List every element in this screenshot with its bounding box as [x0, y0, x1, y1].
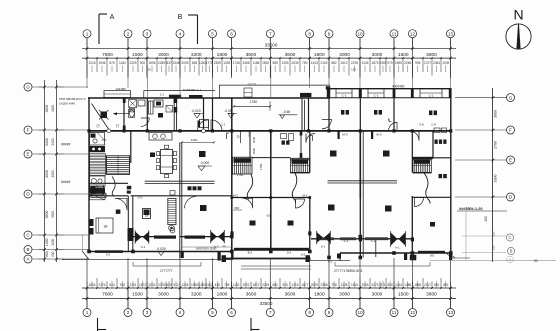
- outer wall left: [88, 97, 90, 251]
- svg-text:10: 10: [357, 310, 363, 315]
- wall x212 upper: [212, 98, 214, 131]
- grid bubble D right: [507, 193, 515, 201]
- svg-text:33500: 33500: [260, 301, 273, 306]
- door leaf big room 1: [338, 131, 340, 139]
- porch divider right: [375, 239, 377, 257]
- columns on bottom walls: [87, 235, 452, 259]
- svg-text:C-1: C-1: [429, 94, 434, 98]
- grid bubble A left: [24, 255, 32, 263]
- grid bubble 13 bottom: [447, 309, 455, 317]
- svg-text:M-2: M-2: [233, 193, 238, 197]
- wall x301 below cross: [300, 131, 303, 158]
- svg-text:400: 400: [484, 216, 488, 222]
- grid line stem 11 top: [393, 38, 395, 49]
- svg-text:1B: 1B: [145, 213, 149, 217]
- svg-text:3300: 3300: [494, 175, 498, 183]
- svg-text:1188: 1188: [253, 61, 260, 65]
- svg-text:A: A: [110, 14, 115, 21]
- living room label: [199, 151, 206, 157]
- svg-text:676: 676: [109, 61, 115, 65]
- svg-text:12: 12: [410, 31, 416, 36]
- grid line stem 10 top: [359, 38, 361, 49]
- svg-text:1800: 1800: [217, 52, 228, 58]
- svg-text:1: 1: [86, 310, 89, 315]
- svg-text:1707: 1707: [424, 61, 431, 65]
- svg-text:M-3: M-3: [376, 132, 381, 136]
- level marker 0.000: [198, 161, 212, 171]
- kitchen stove counter: [149, 133, 172, 141]
- svg-text:B: B: [26, 247, 29, 252]
- grid bubble G right: [507, 94, 515, 102]
- centre porch labels: [248, 250, 292, 254]
- grid line stem 9 top: [328, 38, 330, 49]
- svg-text:2400: 2400: [45, 138, 49, 146]
- stair wall x412: [411, 131, 413, 173]
- circle tag above window: [170, 228, 175, 233]
- grid line stem 3 top: [146, 38, 148, 49]
- grid bubble 5 bottom: [209, 309, 217, 317]
- dim 600 text: [233, 206, 242, 210]
- grid bubble A lower right: [507, 256, 514, 263]
- bath hatch box upper left: [129, 100, 137, 108]
- svg-text:C-3: C-3: [221, 123, 226, 127]
- grid bubble 5 top: [209, 30, 217, 38]
- outer wall step connector: [327, 89, 329, 98]
- svg-text:1500: 1500: [132, 291, 143, 297]
- bracket mark right: [310, 136, 313, 142]
- columns on cross wall: [87, 129, 452, 132]
- svg-text:4000: 4000: [51, 170, 55, 177]
- kitchen window column: [149, 101, 154, 114]
- svg-text:b-1: b-1: [321, 245, 326, 249]
- wall y197 bed5 top: [412, 196, 451, 198]
- svg-text:7800: 7800: [102, 291, 113, 297]
- grid line stem G left: [32, 86, 88, 88]
- svg-text:10: 10: [357, 31, 363, 36]
- wall x329 lower: [328, 237, 330, 258]
- svg-text:1216: 1216: [88, 61, 95, 65]
- right dimension ticks and numbers: [492, 96, 498, 198]
- bed5 window black sill: [418, 251, 445, 254]
- svg-text:3800: 3800: [426, 52, 437, 58]
- svg-text:-0.60: -0.60: [283, 110, 291, 114]
- svg-text:1052: 1052: [223, 61, 230, 65]
- svg-text:120: 120: [146, 68, 151, 72]
- outer wall right: [450, 89, 452, 253]
- svg-text:2209: 2209: [129, 61, 136, 65]
- garage diagonal: [92, 104, 110, 131]
- grid bubble E right: [507, 156, 515, 164]
- svg-text:3000: 3000: [339, 291, 350, 297]
- svg-text:882: 882: [331, 61, 337, 65]
- svg-text:902: 902: [140, 61, 146, 65]
- wc circle fixture: [169, 225, 175, 231]
- svg-text:C-1: C-1: [344, 239, 349, 243]
- svg-text:M-3: M-3: [342, 132, 347, 136]
- top dimension line inner: [82, 57, 456, 59]
- svg-text:B-2: B-2: [248, 250, 253, 254]
- svg-text:1N200-A/46: 1N200-A/46: [59, 102, 75, 106]
- outer wall bottom connector 2: [339, 253, 341, 261]
- right faint line C: [462, 235, 506, 237]
- big room label 1: [330, 151, 337, 157]
- grid bubble C lower right: [506, 234, 513, 241]
- door arc bedroom1: [115, 198, 127, 210]
- svg-text:U-1: U-1: [141, 245, 146, 249]
- svg-text:1875: 1875: [371, 61, 378, 65]
- grid bubble B left: [24, 246, 32, 254]
- svg-text:1039: 1039: [442, 61, 449, 65]
- right faint line B: [462, 252, 506, 254]
- bath fixtures unit3 small room: [281, 134, 294, 141]
- grid line stem E right: [455, 159, 507, 161]
- bedroom2 label: [200, 205, 207, 211]
- hall level marker -0.020: [191, 109, 203, 118]
- right elevation underline: [457, 210, 507, 212]
- grid line stem C left: [32, 234, 88, 236]
- bed3 door arc: [296, 199, 305, 208]
- toilet reposition fix: [129, 109, 134, 117]
- bath fixture shelf: [129, 110, 135, 118]
- columns centre rooms: [231, 196, 312, 199]
- svg-text:1946: 1946: [98, 61, 105, 65]
- svg-text:3200: 3200: [191, 291, 202, 297]
- svg-text:3040: 3040: [252, 136, 256, 143]
- svg-text:M-2: M-2: [303, 193, 308, 197]
- svg-text:5: 5: [211, 31, 214, 36]
- grid line stem F left: [32, 129, 88, 131]
- wall y236 segment a: [133, 236, 168, 238]
- svg-text:3: 3: [146, 310, 149, 315]
- hall double door arcs: [198, 120, 223, 131]
- svg-text:50: 50: [534, 259, 538, 263]
- porch slab dark segments: [133, 255, 416, 260]
- wall x302 upper pair: [302, 98, 305, 131]
- svg-text:C-1: C-1: [342, 94, 347, 98]
- svg-text:1590: 1590: [395, 61, 402, 65]
- svg-text:600: 600: [234, 206, 239, 210]
- svg-text:33500: 33500: [265, 42, 278, 47]
- bedroom label: [116, 210, 121, 214]
- svg-text:F: F: [509, 128, 512, 133]
- svg-text:3000: 3000: [158, 291, 169, 297]
- lintel black bar 1: [169, 95, 181, 98]
- grid bubble B lower right: [507, 247, 514, 254]
- unit wall x270: [270, 131, 272, 252]
- entrance door bowtie unit1: [135, 230, 149, 243]
- wall x360 lower: [360, 131, 363, 258]
- svg-text:0.000: 0.000: [201, 161, 210, 165]
- grid bubble 8 bottom: [306, 309, 314, 317]
- grid bubble G left: [24, 83, 32, 91]
- hall3 label: [328, 205, 335, 211]
- svg-text:2289: 2289: [158, 61, 165, 65]
- right wing window band verticals: [327, 88, 451, 98]
- grid bubble E left: [24, 150, 32, 158]
- bed5 room label: [430, 222, 435, 227]
- grid bubble 3 top: [143, 30, 151, 38]
- dim line 1780: [233, 101, 271, 111]
- bed4 label: [385, 206, 392, 212]
- svg-text:350: 350: [492, 231, 496, 236]
- bath fixtures unit4 small room: [434, 128, 447, 144]
- svg-text:3000: 3000: [252, 147, 256, 154]
- wall x175 upper: [174, 98, 178, 131]
- svg-text:2359: 2359: [214, 61, 221, 65]
- svg-text:A: A: [26, 257, 30, 262]
- svg-text:3200: 3200: [191, 52, 202, 58]
- dining table with chairs: [157, 145, 177, 178]
- top dimension row2 small numbers and ticks: [86, 57, 452, 75]
- entrance door bowtie unit3: [317, 231, 331, 244]
- canopy vertical line: [219, 85, 221, 98]
- svg-text:11: 11: [392, 310, 397, 315]
- wall y236 segment c: [311, 238, 412, 240]
- svg-text:8: 8: [308, 31, 311, 36]
- svg-text:1443: 1443: [311, 61, 318, 65]
- top dimension separators and ticks: [86, 47, 452, 59]
- svg-text:1200: 1200: [191, 138, 198, 142]
- svg-text:D: D: [26, 192, 30, 197]
- svg-text:7: 7: [269, 31, 272, 36]
- svg-text:3600: 3600: [285, 291, 296, 297]
- bedroom table: [96, 218, 113, 233]
- door arc room u2b: [243, 198, 253, 208]
- svg-text:13: 13: [448, 31, 454, 36]
- wall x394 upper: [393, 89, 395, 131]
- grid bubble 13 top: [447, 30, 455, 38]
- grid bubble 9 top: [325, 30, 333, 38]
- porch column stub 2: [222, 255, 227, 262]
- grid bubble F right: [507, 126, 515, 134]
- svg-text:9: 9: [328, 31, 331, 36]
- left dimension numbers: [45, 105, 55, 258]
- svg-text:3900: 3900: [51, 211, 55, 218]
- wall y196 foyer top: [131, 195, 232, 197]
- grid bubble C left: [24, 231, 32, 239]
- bedroom wall items: [90, 219, 94, 235]
- wall x309 lower: [309, 196, 311, 252]
- grid line stem 8 top: [309, 38, 311, 49]
- bed5 door arc: [415, 198, 424, 207]
- grid line stem 6 top: [231, 38, 233, 49]
- svg-text:4: 4: [179, 31, 182, 36]
- stair1 exit squiggle: [112, 177, 115, 197]
- door arc right wing 2: [410, 131, 420, 141]
- outer wall top right wing: [327, 88, 452, 90]
- svg-text:3000: 3000: [372, 52, 383, 58]
- svg-text:G: G: [509, 95, 513, 100]
- svg-text:-0.020: -0.020: [191, 109, 201, 113]
- svg-text:2: 2: [127, 31, 130, 36]
- entrance door bowtie unit2: [211, 230, 225, 243]
- top dimension row1 numbers: [102, 52, 437, 58]
- svg-text:G: G: [26, 85, 30, 90]
- wall x124 upper: [123, 98, 125, 131]
- room label ws: [158, 113, 163, 118]
- svg-text:1800: 1800: [314, 291, 325, 297]
- unit wall x360: [359, 89, 361, 131]
- porch column stub 5: [449, 253, 452, 260]
- outer wall bottom right part: [340, 252, 452, 254]
- small box D: [170, 191, 175, 196]
- svg-text:3000: 3000: [339, 52, 350, 58]
- svg-text:171711: 171711: [247, 82, 257, 86]
- right wing top windows: [336, 89, 442, 98]
- room u2b label: [250, 221, 256, 226]
- grid bubble 10 bottom: [356, 309, 364, 317]
- svg-text:2458: 2458: [242, 61, 249, 65]
- svg-text:4000: 4000: [45, 170, 49, 178]
- svg-text:3000: 3000: [372, 291, 383, 297]
- bedroom2 dim line: [182, 246, 231, 248]
- svg-text:0-8: 0-8: [419, 123, 423, 127]
- grid line stem 13 top: [450, 38, 452, 49]
- svg-text:030: 030: [138, 196, 143, 200]
- grid bubble 2 bottom: [124, 309, 132, 317]
- door arcs bed2 bottom pair: [389, 119, 398, 131]
- grid bubble 1 top: [83, 30, 91, 38]
- terrace line left unit: [133, 265, 201, 267]
- svg-text:C-1: C-1: [160, 92, 165, 96]
- svg-text:E: E: [26, 152, 29, 157]
- svg-text:1305: 1305: [281, 61, 288, 65]
- svg-text:120: 120: [351, 68, 356, 72]
- svg-text:1596: 1596: [148, 61, 155, 65]
- svg-text:6: 6: [230, 31, 233, 36]
- right tiny rotated dims: [492, 231, 496, 250]
- grid bubble 10 top: [356, 30, 364, 38]
- outer wall bottom left part: [88, 251, 233, 253]
- room label bed2: [374, 110, 382, 115]
- right dimension line: [492, 88, 494, 262]
- column circle a: [107, 129, 111, 133]
- stairs unit3: [291, 158, 310, 173]
- grid bubble 7 top: [266, 30, 274, 38]
- black columns centre room walls: [230, 231, 414, 241]
- grid bubble D left: [24, 190, 32, 198]
- svg-text:3900: 3900: [45, 211, 49, 219]
- big room label 2: [383, 151, 390, 157]
- wall y197 centre: [232, 197, 310, 199]
- right note vertical line: [465, 211, 467, 260]
- wall x130 upper segment: [130, 131, 132, 163]
- grid line stem D right: [455, 196, 507, 198]
- outer wall top left wing: [88, 97, 330, 99]
- wall y251 centre rooms: [233, 249, 310, 251]
- kitchen sink block: [154, 100, 163, 107]
- grid bubble 9 bottom: [325, 309, 333, 317]
- grid bubble 11 bottom: [390, 309, 398, 317]
- kitchen counter line: [145, 181, 215, 183]
- level marker -0.030: [156, 247, 166, 256]
- svg-text:[-]: [-]: [97, 124, 100, 128]
- centre porch steps: [241, 266, 311, 269]
- section marker A: [99, 14, 115, 44]
- left dimension line outer: [44, 80, 46, 262]
- grid line stem A left: [32, 258, 88, 260]
- door arc right wing 1: [306, 134, 315, 143]
- door arc room2: [141, 118, 150, 126]
- svg-text:12: 12: [222, 244, 226, 248]
- kitchen-bath fixtures left strip: [90, 133, 106, 200]
- black corner right wing NW: [326, 86, 331, 89]
- svg-text:900: 900: [45, 251, 49, 257]
- bed3 label: [288, 221, 294, 226]
- svg-text:1400: 1400: [51, 238, 55, 245]
- bottom section cut A: [98, 318, 107, 331]
- svg-text:1: 1: [86, 31, 89, 36]
- svg-text:D: D: [509, 195, 513, 200]
- wall y172 stair3 bottom: [291, 172, 310, 174]
- porch column stub 1: [218, 252, 221, 261]
- entrance door bowtie unit4: [391, 231, 406, 247]
- grid bubble 11 top: [390, 30, 398, 38]
- svg-text:C: C: [26, 233, 30, 238]
- svg-text:N7NN08A-A-1: N7NN08A-A-1: [183, 88, 202, 92]
- grid line stem 1 top: [86, 38, 88, 49]
- svg-text:4400: 4400: [51, 105, 55, 112]
- wall y183 left kitchen: [89, 182, 128, 184]
- svg-text:698: 698: [192, 61, 198, 65]
- svg-text:-0.05: -0.05: [224, 109, 232, 113]
- porch column stub 3: [306, 254, 342, 263]
- wall x433 upper right: [432, 131, 434, 158]
- svg-text:1780: 1780: [259, 163, 263, 170]
- outer wall right wing face: [330, 97, 452, 99]
- svg-text:3: 3: [146, 31, 149, 36]
- svg-text:2152: 2152: [320, 61, 327, 65]
- wall x203 upper: [203, 98, 205, 131]
- door arc bed1 bottom: [322, 119, 332, 129]
- grid line stem G right: [455, 97, 507, 99]
- svg-text:1500: 1500: [398, 291, 409, 297]
- grid bubble 7 bottom: [266, 309, 274, 317]
- dining label glyph: [150, 153, 155, 158]
- overhang line top centre: [219, 84, 330, 86]
- svg-text:2400: 2400: [51, 138, 55, 145]
- grid line stem E left: [32, 153, 88, 155]
- svg-text:5: 5: [211, 310, 214, 315]
- wall y172 stair4 bottom: [413, 172, 432, 174]
- svg-text:1746: 1746: [233, 61, 240, 65]
- svg-text:900: 900: [51, 251, 55, 257]
- dim 1200 living: [181, 138, 215, 143]
- wall y236 segment b: [180, 236, 232, 238]
- porch column stub 4: [404, 253, 407, 260]
- mid counter right pair: [328, 181, 398, 183]
- stairs unit1: [107, 156, 130, 175]
- svg-text:F: F: [27, 128, 30, 133]
- svg-text:11: 11: [392, 31, 397, 36]
- north arrow compass circle: [506, 24, 531, 49]
- grid bubble 12 bottom: [409, 309, 417, 317]
- left dimension ticks: [38, 86, 64, 261]
- bottom dimension separators: [86, 287, 452, 309]
- svg-text:E: E: [509, 158, 512, 163]
- wall x147 upper: [146, 98, 148, 131]
- svg-text:4: 4: [179, 310, 182, 315]
- svg-text:2364: 2364: [433, 61, 440, 65]
- svg-text:1B: 1B: [103, 225, 108, 229]
- black bar top centre: [300, 93, 311, 97]
- grid bubble F left: [24, 126, 32, 134]
- svg-text:1612: 1612: [340, 61, 347, 65]
- svg-text:0-2: 0-2: [287, 250, 292, 254]
- wall x329 upper: [328, 89, 330, 131]
- wall y157 centre left: [252, 157, 271, 159]
- entry appliance: [143, 209, 151, 219]
